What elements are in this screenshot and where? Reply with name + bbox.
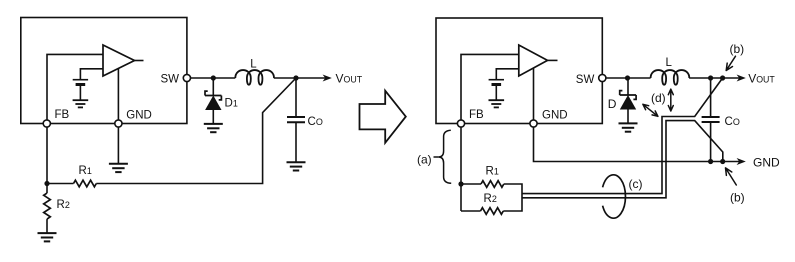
svg-text:R1: R1 xyxy=(79,165,92,177)
svg-text:GND: GND xyxy=(126,110,152,122)
svg-text:VOUT: VOUT xyxy=(336,72,363,86)
svg-text:GND: GND xyxy=(753,156,780,170)
svg-text:L: L xyxy=(250,58,257,70)
svg-text:(c): (c) xyxy=(629,177,643,191)
svg-text:(b): (b) xyxy=(730,191,745,205)
svg-text:D: D xyxy=(608,97,617,111)
svg-text:CO: CO xyxy=(308,116,323,128)
svg-text:(b): (b) xyxy=(730,42,745,56)
svg-text:R2: R2 xyxy=(484,193,497,205)
svg-text:D1: D1 xyxy=(225,97,238,109)
svg-text:R1: R1 xyxy=(486,166,499,178)
svg-text:FB: FB xyxy=(469,109,484,121)
svg-text:CO: CO xyxy=(725,116,740,128)
svg-text:R2: R2 xyxy=(57,199,70,211)
svg-text:FB: FB xyxy=(55,109,70,121)
svg-text:GND: GND xyxy=(542,110,568,122)
svg-text:(d): (d) xyxy=(651,91,666,105)
svg-text:(a): (a) xyxy=(417,152,432,166)
svg-text:SW: SW xyxy=(161,74,180,86)
svg-text:SW: SW xyxy=(576,74,595,86)
svg-text:VOUT: VOUT xyxy=(748,72,775,86)
svg-text:L: L xyxy=(666,57,673,69)
